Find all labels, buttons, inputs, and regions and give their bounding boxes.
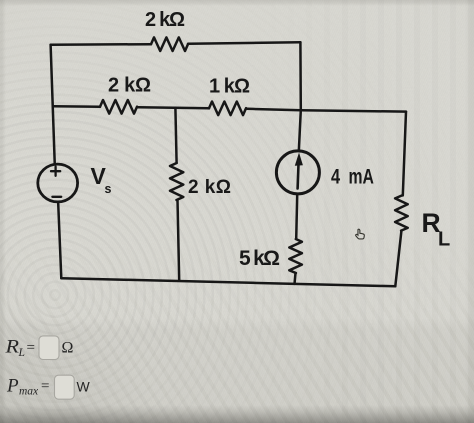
- wire middle branch upper: [175, 108, 176, 163]
- wire top-right segment: [188, 42, 300, 44]
- svg-text:L: L: [18, 347, 25, 359]
- svg-text:max: max: [19, 386, 39, 398]
- wire current-source branch to 5k: [296, 196, 297, 240]
- svg-text:2 kΩ: 2 kΩ: [108, 75, 151, 97]
- resistor 1k zigzag: [209, 102, 246, 116]
- current source I1 circle: [276, 151, 319, 194]
- svg-text:P: P: [6, 376, 19, 397]
- wire middle row node to right corner: [301, 110, 406, 111]
- wire middle row: left rail to 2k: [53, 105, 100, 108]
- resistor 5k vertical zigzag: [289, 239, 302, 273]
- wire middle row right of 1k to node: [247, 109, 301, 111]
- svg-text:L: L: [438, 228, 450, 250]
- current source arrow shaft: [298, 159, 299, 189]
- wire middle branch lower: [178, 200, 180, 280]
- svg-text:2 kΩ: 2 kΩ: [145, 9, 185, 31]
- wire current-source branch upper: [299, 110, 301, 149]
- resistor RL vertical zigzag: [395, 196, 408, 231]
- svg-text:1 kΩ: 1 kΩ: [209, 76, 250, 98]
- voltage source Vs circle: [38, 164, 78, 202]
- wire top-left segment: [51, 43, 151, 46]
- svg-text:=: =: [27, 340, 35, 356]
- resistor 2k middle-row zigzag: [100, 100, 137, 114]
- svg-text:mA: mA: [349, 164, 374, 188]
- equation RL = box Ohm: [4, 336, 90, 399]
- wire 5k to bottom rail: [295, 273, 296, 284]
- mouse cursor hand: [356, 229, 365, 239]
- current source arrow head: [295, 153, 303, 166]
- svg-text:2 kΩ: 2 kΩ: [188, 177, 231, 198]
- wire RL branch upper: [403, 112, 406, 196]
- wire left rail lower: [58, 203, 61, 278]
- wire middle row between resistors: [138, 107, 209, 108]
- answer box for Pmax: [55, 375, 75, 399]
- wire RL to bottom rail: [395, 231, 401, 286]
- minus sign of Vs: [52, 196, 61, 198]
- svg-text:4: 4: [331, 165, 341, 188]
- wire left rail upper: [51, 45, 55, 163]
- wire right drop from top to middle row: [299, 42, 302, 110]
- svg-text:Ω: Ω: [62, 340, 74, 357]
- svg-text:s: s: [105, 182, 112, 196]
- answer box for RL: [39, 336, 59, 360]
- svg-text:R: R: [4, 337, 19, 358]
- svg-text:W: W: [77, 379, 91, 395]
- plus sign of Vs: [51, 167, 60, 176]
- svg-text:=: =: [41, 379, 49, 395]
- resistor 2k vertical zigzag: [170, 163, 183, 200]
- resistor R top 2k zigzag: [151, 37, 188, 51]
- wire bottom rail: [61, 278, 395, 286]
- svg-text:5 kΩ: 5 kΩ: [239, 247, 280, 270]
